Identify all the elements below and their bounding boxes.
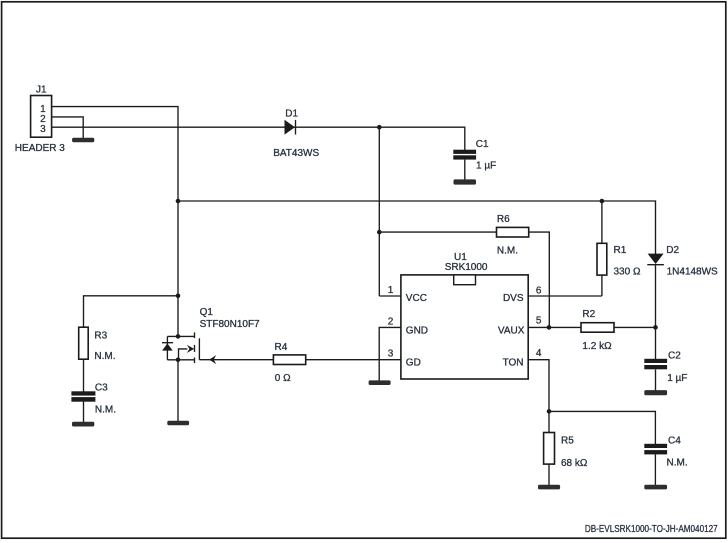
svg-text:R4: R4	[275, 342, 288, 353]
svg-text:R3: R3	[94, 330, 107, 341]
svg-text:R2: R2	[582, 309, 595, 320]
svg-text:TON: TON	[503, 357, 524, 368]
svg-text:SRK1000: SRK1000	[445, 262, 488, 273]
svg-text:D1: D1	[285, 109, 298, 120]
svg-text:C2: C2	[668, 350, 681, 361]
svg-text:J1: J1	[36, 85, 47, 96]
svg-text:C1: C1	[476, 139, 489, 150]
svg-text:5: 5	[536, 315, 542, 326]
svg-text:R5: R5	[561, 435, 574, 446]
svg-text:2: 2	[388, 317, 394, 328]
svg-text:STF80N10F7: STF80N10F7	[200, 319, 260, 330]
svg-text:BAT43WS: BAT43WS	[273, 148, 319, 159]
svg-text:HEADER 3: HEADER 3	[15, 143, 65, 154]
svg-text:D2: D2	[666, 245, 679, 256]
svg-text:Q1: Q1	[200, 307, 214, 318]
svg-text:1 µF: 1 µF	[667, 373, 687, 384]
svg-text:N.M.: N.M.	[497, 245, 518, 256]
svg-text:0 Ω: 0 Ω	[275, 373, 291, 384]
svg-text:VAUX: VAUX	[498, 326, 525, 337]
svg-text:1.2 kΩ: 1.2 kΩ	[582, 341, 612, 352]
svg-text:N.M.: N.M.	[95, 405, 116, 416]
svg-text:N.M.: N.M.	[94, 351, 115, 362]
svg-text:6: 6	[536, 285, 542, 296]
svg-text:68 kΩ: 68 kΩ	[561, 458, 588, 469]
svg-text:VCC: VCC	[406, 293, 427, 304]
svg-text:330 Ω: 330 Ω	[614, 266, 641, 277]
svg-text:DVS: DVS	[503, 293, 524, 304]
svg-text:1N4148WS: 1N4148WS	[667, 267, 718, 278]
svg-text:4: 4	[536, 348, 542, 359]
svg-text:1: 1	[388, 285, 394, 296]
svg-text:C3: C3	[95, 382, 108, 393]
svg-text:N.M.: N.M.	[667, 457, 688, 468]
svg-text:GD: GD	[406, 357, 421, 368]
svg-text:C4: C4	[668, 435, 681, 446]
svg-text:R6: R6	[497, 214, 510, 225]
svg-text:DB-EVLSRK1000-TO-JH-AM040127: DB-EVLSRK1000-TO-JH-AM040127	[585, 523, 718, 534]
svg-text:GND: GND	[406, 326, 428, 337]
svg-text:R1: R1	[614, 245, 627, 256]
svg-text:3: 3	[388, 348, 394, 359]
svg-text:3: 3	[40, 124, 46, 135]
svg-text:1 µF: 1 µF	[476, 161, 496, 172]
